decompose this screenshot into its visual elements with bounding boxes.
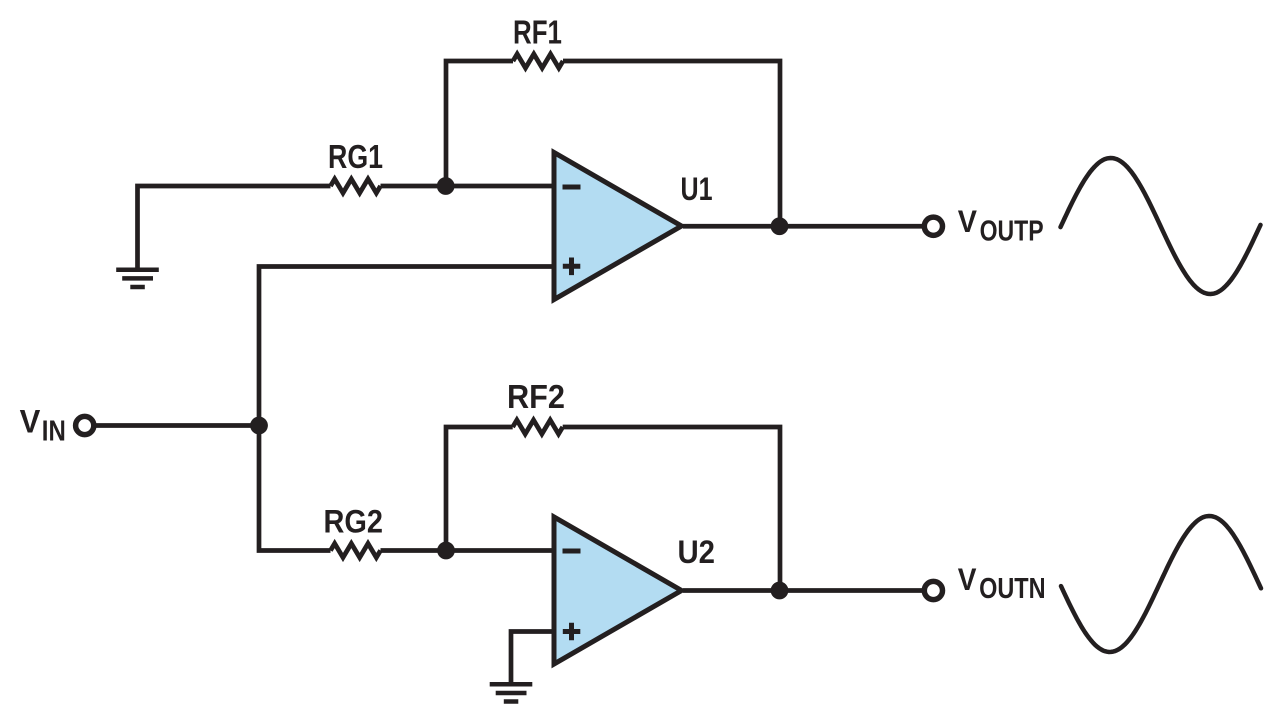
svg-text:U1: U1 xyxy=(681,171,713,207)
terminal VOUTP xyxy=(924,217,942,235)
label VIN xyxy=(20,403,66,446)
terminal VOUTN xyxy=(924,581,942,599)
svg-text:V: V xyxy=(958,203,977,239)
svg-text:OUTN: OUTN xyxy=(979,573,1046,605)
svg-text:U2: U2 xyxy=(678,534,716,570)
resistor RG2 xyxy=(331,544,381,558)
op-amp U1 xyxy=(554,153,682,300)
label VOUTN xyxy=(958,562,1046,605)
wire xyxy=(683,224,922,229)
ground xyxy=(490,684,533,701)
label VOUTP xyxy=(958,203,1044,248)
wire xyxy=(563,427,780,591)
svg-text:RG2: RG2 xyxy=(324,504,384,540)
resistor RG1 xyxy=(331,179,381,193)
svg-text:IN: IN xyxy=(42,415,66,447)
wire xyxy=(381,184,556,189)
wire xyxy=(259,267,555,551)
resistor RF1 xyxy=(513,54,563,68)
svg-text:RF2: RF2 xyxy=(507,378,565,415)
node (U2 output junction) xyxy=(771,582,789,600)
node (input junction) xyxy=(250,417,268,435)
wire xyxy=(446,61,513,186)
wire xyxy=(563,61,780,226)
svg-text:V: V xyxy=(958,562,977,597)
resistor RF2 xyxy=(513,420,563,434)
svg-text:OUTP: OUTP xyxy=(980,216,1044,248)
waveform VOUTN xyxy=(1061,516,1261,652)
op-amp U2 xyxy=(554,517,682,664)
terminal VIN xyxy=(76,416,94,434)
wire xyxy=(381,548,556,553)
wire xyxy=(138,186,331,268)
ground xyxy=(116,270,159,287)
wire xyxy=(446,427,513,551)
node (U2 inverting input junction) xyxy=(437,542,455,560)
node (U1 output junction) xyxy=(771,217,789,235)
wire xyxy=(95,423,259,428)
node (U1 inverting input junction) xyxy=(437,177,455,195)
svg-text:RF1: RF1 xyxy=(513,14,562,51)
wire xyxy=(683,588,922,593)
svg-text:RG1: RG1 xyxy=(328,138,383,175)
wire xyxy=(511,632,555,684)
svg-text:V: V xyxy=(20,403,41,439)
waveform VOUTP xyxy=(1061,158,1261,294)
